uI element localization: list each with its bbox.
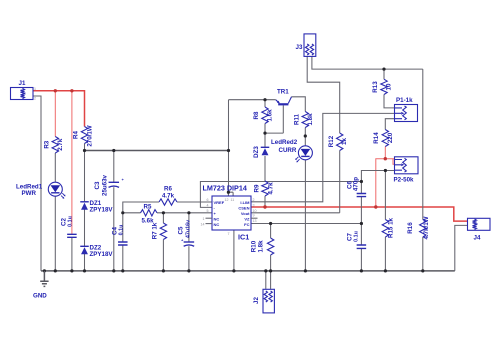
junction at 122.8,212.8 (121, 211, 124, 214)
resistor R6 (159, 199, 177, 205)
junction at 384,69.1 (382, 68, 385, 71)
wire: R10 bottom to ground bus (270, 255, 272, 271)
wire: C7 bottom to ground bus (360, 249, 362, 271)
junction at 422.8,270.9 (421, 269, 424, 272)
LED LedRed1 (48, 182, 62, 196)
svg-text:R4: R4 (73, 130, 80, 138)
capacitor C7 (357, 245, 367, 248)
wire: R15 bottom to ground bus (384, 237, 386, 271)
wire: R13 top lead (383, 69, 385, 79)
wire: R12 top to J3 pin1 (307, 56, 340, 133)
svg-text:NC: NC (214, 216, 220, 221)
wire: R7 bottom to ground bus (162, 240, 164, 271)
svg-text:0.1u: 0.1u (354, 231, 360, 242)
wire: P2 pin3 node to C6 top (361, 171, 385, 194)
capacitor C6 (357, 194, 367, 197)
svg-text:7: 7 (228, 232, 230, 236)
junction at 385.4,170.5 (384, 169, 387, 172)
resistor R13 (381, 79, 387, 94)
svg-text:10: 10 (253, 209, 257, 213)
svg-text:25u63v: 25u63v (102, 174, 109, 196)
svg-text:I.LIM: I.LIM (240, 200, 250, 205)
svg-text:470p: 470p (353, 177, 360, 191)
wire: R10 top lead (270, 224, 272, 239)
svg-text:CSEN: CSEN (238, 206, 249, 211)
wire: J2 pin1 to ground bus (265, 271, 267, 289)
junction: red bus at 71.9 (70, 89, 73, 92)
wire: TR1 collector to R11 (292, 97, 306, 112)
svg-text:1: 1 (34, 87, 36, 91)
svg-text:C7: C7 (347, 232, 354, 240)
svg-text:14: 14 (201, 223, 205, 227)
wire: J1 pin1 red positive bus to R4 top (33, 91, 85, 127)
junction at 163.4,212.8 (162, 211, 165, 214)
junction at 270.6,270.9 (269, 269, 272, 272)
wire: R8 top lead (264, 100, 266, 107)
svg-text:1: 1 (203, 217, 205, 221)
wire: R3 bottom to LED1 (54, 153, 56, 182)
pin 9 VZ stub of IC1 (251, 217, 258, 219)
wire: rail down to R16 top (422, 69, 424, 219)
svg-text:1k: 1k (341, 138, 348, 145)
wire: C5 top lead (188, 213, 190, 242)
svg-text:2: 2 (253, 198, 255, 202)
svg-text:4: 4 (207, 203, 209, 207)
svg-text:R7 1k: R7 1k (152, 222, 159, 239)
svg-text:6: 6 (207, 198, 209, 202)
junction at 113.8,270.9 (112, 269, 115, 272)
svg-text:1.6k: 1.6k (267, 109, 274, 122)
svg-text:1.8k: 1.8k (258, 240, 265, 253)
svg-text:C5: C5 (178, 226, 185, 234)
junction at 188.9,212.8 (187, 211, 190, 214)
wire: C2 bottom to ground bus (71, 237, 73, 271)
junction at 265,99.7 (263, 98, 266, 101)
pin 14 NC stub of IC1 (206, 223, 213, 225)
resistor R11 (302, 112, 308, 128)
wire: FC pin13 line (251, 223, 361, 225)
resistor R14 (382, 130, 388, 147)
svg-text:J4: J4 (474, 235, 481, 242)
connector J4 (468, 218, 491, 230)
wire: R5 left lead (123, 212, 141, 214)
svg-text:DZ3: DZ3 (253, 146, 260, 158)
resistor R4 (81, 127, 87, 144)
svg-text:9: 9 (253, 214, 255, 218)
wire: ground bus up to J4 pin2 (455, 225, 468, 271)
junction: red bus at 55.3 (54, 89, 57, 92)
junction at 188.9,270.9 (187, 269, 190, 272)
junction at 228.4,192.2 (227, 191, 230, 194)
wire: IC pin2 I.LIM to P1 wiper (251, 113, 395, 201)
junction at 265.8,270.9 (264, 269, 267, 272)
svg-text:J1: J1 (19, 80, 26, 87)
svg-text:GND: GND (33, 293, 47, 300)
wire: DZ1 to DZ2 (84, 209, 86, 246)
wire: red net R14/P2 wiper to CSEN (376, 159, 386, 207)
resistor R10 (267, 238, 273, 255)
junction at 270.6,223.5 (269, 222, 272, 225)
svg-text:10: 10 (386, 83, 393, 90)
svg-text:2.7k: 2.7k (57, 138, 64, 151)
wire: C6 bottom to FC node and C7 top (360, 197, 362, 245)
svg-text:0.1u: 0.1u (67, 216, 73, 227)
svg-text:R6: R6 (164, 186, 172, 193)
junction: red CSEN net at 385.3 (384, 157, 387, 160)
junction at 55.3,270.9 (54, 269, 57, 272)
svg-text:CURR: CURR (279, 147, 297, 154)
svg-text:TR1: TR1 (277, 89, 289, 96)
wire: P1 pin3 to R14 top (385, 119, 394, 130)
resistor R16 (420, 220, 426, 238)
capacitor C3 polarized (109, 181, 120, 183)
svg-text:R10: R10 (251, 240, 258, 252)
wire: Vout pin10 line (251, 212, 340, 214)
svg-text:LM723 DIP14: LM723 DIP14 (203, 184, 247, 193)
svg-text:13: 13 (253, 219, 257, 223)
svg-text:FC: FC (244, 222, 249, 227)
svg-text:R16: R16 (407, 222, 414, 234)
LED LedRed2 (298, 146, 312, 160)
wire: R9 bottom to CSEN net (264, 196, 266, 207)
wire: IC pin7 to ground bus (233, 230, 235, 271)
svg-text:R13: R13 (372, 81, 379, 93)
wire: P2 pin3 node to R15 top (385, 171, 394, 220)
svg-text:VREF: VREF (214, 200, 225, 205)
wire: red branch to R3 top (54, 91, 56, 137)
wire: C4 top lead (122, 213, 124, 242)
resistor R7 (160, 223, 166, 240)
capacitor C4 (118, 242, 128, 245)
svg-text:47u16v: 47u16v (186, 220, 192, 238)
diode DZ3 (261, 146, 270, 148)
wire: red branch to C2 top (71, 91, 73, 235)
svg-text:P2-50k: P2-50k (394, 177, 415, 184)
svg-text:R8: R8 (253, 111, 260, 119)
svg-text:R15 1k: R15 1k (388, 217, 395, 238)
resistor R9 (262, 181, 268, 196)
svg-text:R3: R3 (44, 140, 51, 148)
wire: J2 pin2 to ground bus (270, 271, 272, 289)
svg-text:3: 3 (253, 203, 255, 207)
resistor R3 (52, 137, 58, 154)
junction at 385.4,270.9 (384, 269, 387, 272)
wire: R16 bottom to ground bus (422, 237, 424, 271)
svg-text:11: 11 (231, 198, 235, 202)
svg-text:4.7k: 4.7k (268, 182, 275, 195)
svg-text:4.7k: 4.7k (162, 193, 175, 200)
wire: LED1 cathode to ground bus (54, 196, 56, 271)
resistor R5 (141, 210, 158, 216)
wire: C3 bottom to ground bus (113, 187, 115, 271)
svg-text:C3: C3 (94, 181, 101, 189)
resistor R12 (337, 133, 343, 151)
junction: red CSEN net at 375.8 (374, 205, 377, 208)
wire: C5 bottom to ground bus (188, 246, 190, 271)
zener diode DZ1 (80, 201, 89, 203)
junction at 228.5,150.5 (227, 149, 230, 152)
wire: J1 pin2 down to ground bus (33, 96, 41, 271)
junction at 361.4,181.5 (360, 180, 363, 183)
wire: DZ2 to ground bus (84, 254, 86, 271)
svg-text:P1-1k: P1-1k (396, 97, 413, 104)
connector J1 (11, 88, 34, 100)
wire: R7 top lead (162, 213, 164, 223)
wire: CSEN red net pin3 to J4 pin1 (251, 207, 468, 221)
wire: IC pin4 INV route to divider node (200, 182, 361, 208)
svg-text:1.8k: 1.8k (307, 113, 314, 126)
svg-text:R9: R9 (254, 184, 261, 192)
svg-text:2: 2 (34, 97, 36, 101)
wire: ground bus (41, 270, 455, 272)
svg-text:R12: R12 (328, 135, 335, 147)
wire: V-in rail y150 (85, 150, 229, 152)
junction at 265,133.1 (263, 132, 266, 135)
wire: R12 bottom lead (339, 151, 341, 213)
junction at 233.9,270.9 (232, 269, 235, 272)
junction at 361.4,270.9 (360, 269, 363, 272)
svg-text:R5: R5 (144, 204, 152, 211)
junction at 84.5,150.5 (83, 149, 86, 152)
junction at 305.3,136 (304, 134, 307, 137)
wire: V+ vertical to IC pin 12 (228, 100, 233, 196)
resistor R15 (382, 220, 388, 238)
potentiometer P1 (395, 105, 418, 122)
svg-text:LedRed2: LedRed2 (271, 139, 298, 146)
junction at 113.8,150.5 (112, 149, 115, 152)
wire: R13 bottom to P1 pin1 (384, 95, 395, 108)
svg-text:IC1: IC1 (238, 233, 249, 242)
svg-text:4.7k/1W: 4.7k/1W (423, 216, 430, 239)
svg-text:C4: C4 (112, 226, 119, 234)
junction at 71.9,270.9 (70, 269, 73, 272)
connector J2 (263, 289, 274, 313)
transistor TR1 (278, 103, 288, 105)
wire: J3 pin2 to R13/R16 rail (312, 56, 423, 69)
svg-text:NC: NC (214, 222, 220, 227)
junction: red CSEN net at 265 (263, 205, 266, 208)
wire: C3 top lead (113, 151, 115, 183)
svg-text:PWR: PWR (22, 190, 37, 197)
wire: R5 right to IC pin5 (157, 212, 212, 214)
svg-text:0.1u: 0.1u (119, 225, 125, 236)
svg-text:220: 220 (387, 132, 394, 143)
svg-text:5: 5 (207, 209, 209, 213)
wire: R14 bottom red lead (384, 147, 386, 159)
wire: R4 bottom to DZ1 (84, 144, 86, 202)
potentiometer P2 (395, 157, 419, 174)
wire: R11 bottom to LED2 (304, 128, 306, 146)
junction at 305.4,270.9 (304, 269, 307, 272)
svg-text:R14: R14 (373, 132, 380, 144)
capacitor C2 (67, 234, 77, 237)
wire: DZ3 to R9 (264, 156, 266, 181)
wire: LED2 cathode down to ground bus (304, 160, 306, 271)
junction at 361.4,223.5 (360, 222, 363, 225)
junction at 84.5,270.9 (83, 269, 86, 272)
svg-text:J2: J2 (253, 297, 260, 304)
capacitor C5 polarized (184, 241, 195, 243)
junction at 122.8,270.9 (121, 269, 124, 272)
junction at 44.4,270.9 (43, 269, 46, 272)
svg-text:12: 12 (225, 198, 229, 202)
svg-text:ZPY18V: ZPY18V (90, 207, 114, 214)
wire: C4 bottom to ground bus (122, 245, 124, 271)
svg-text:ZPY18V: ZPY18V (90, 251, 114, 258)
wire: VREF pin6 to R6 (177, 201, 212, 203)
op-amp regulator IC1 LM723 box (212, 196, 251, 230)
svg-text:J3: J3 (296, 44, 303, 51)
ground symbol GND (40, 271, 48, 287)
zener diode DZ2 (80, 245, 89, 247)
svg-text:270/1W: 270/1W (87, 125, 94, 146)
junction at 163.4,270.9 (162, 269, 165, 272)
svg-text:VZ: VZ (244, 216, 250, 221)
wire: red jog to P2 pin1 and wiper (385, 159, 394, 165)
connector J3 (304, 34, 316, 57)
wire: top rail to R8 and TR1 emitter (229, 99, 276, 101)
svg-text:Vout: Vout (241, 211, 250, 216)
wire: R6 left lead to C4 node (123, 202, 159, 213)
svg-text:R11: R11 (294, 113, 301, 125)
resistor R8 (262, 107, 268, 124)
pin 1 NC stub of IC1 (206, 217, 213, 219)
wire: R8 bottom / DZ3 top / TR1 base node (265, 105, 283, 147)
